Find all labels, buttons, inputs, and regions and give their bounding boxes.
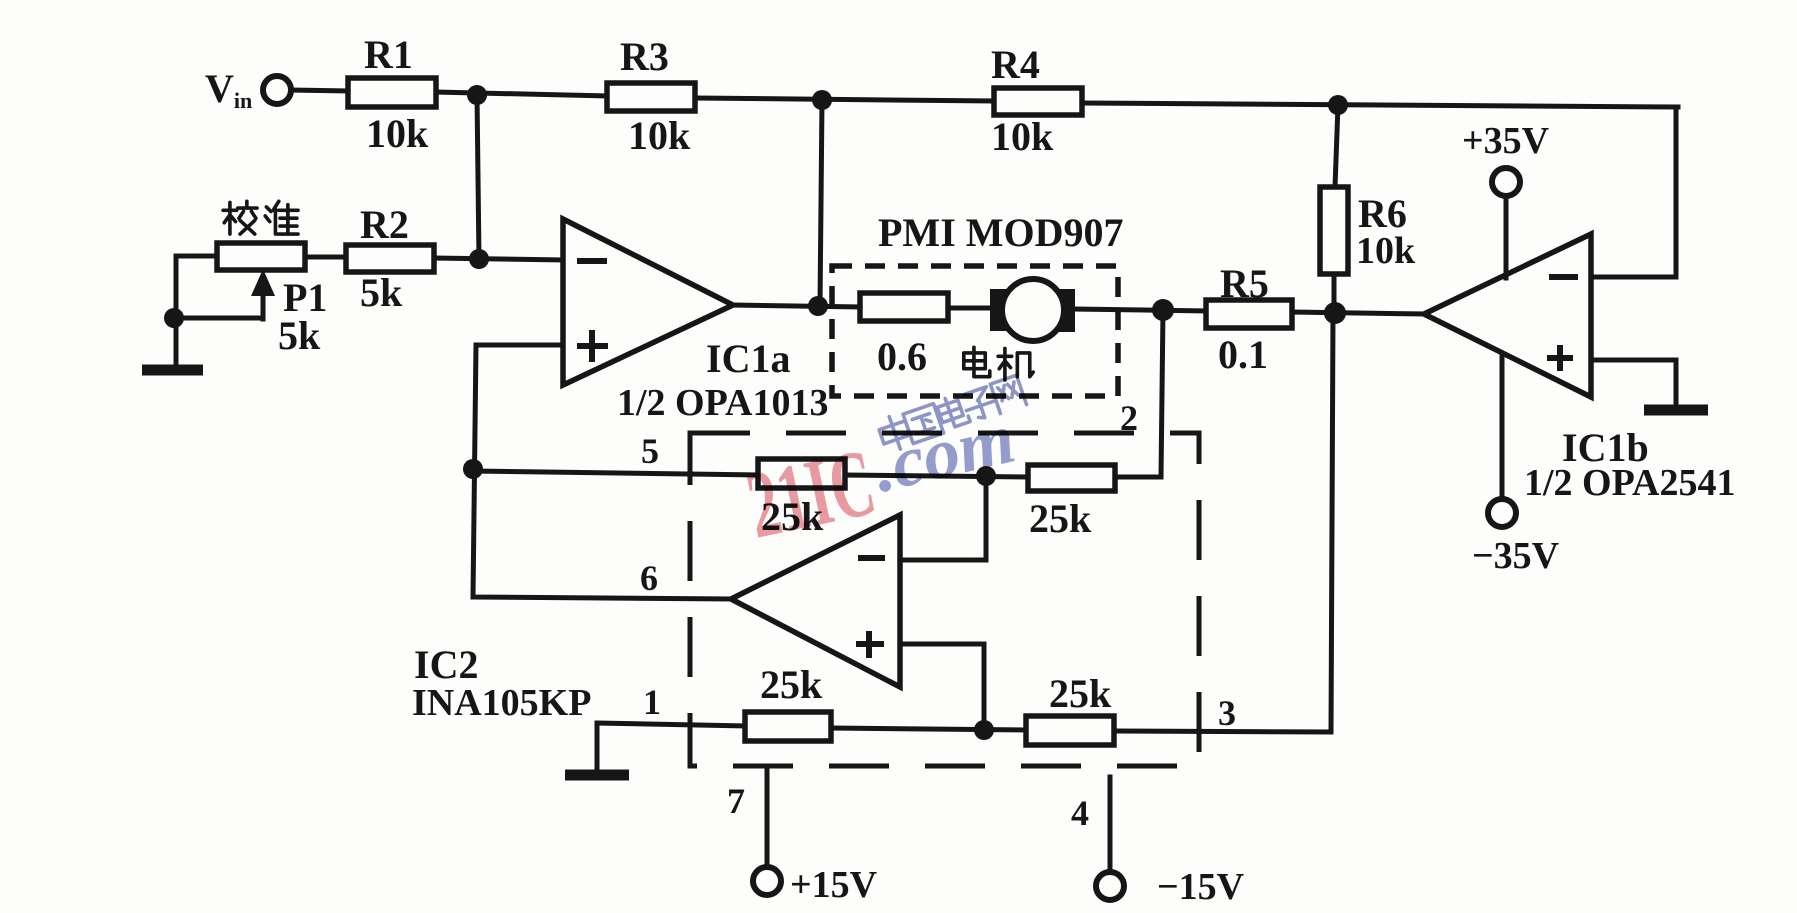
resistor 25k (top-right) (1028, 465, 1115, 541)
svg-text:5k: 5k (278, 313, 321, 358)
wire node G to IC2 inverting input (900, 476, 986, 560)
svg-text:IC1a: IC1a (706, 336, 790, 381)
svg-text:3: 3 (1218, 693, 1236, 733)
svg-text:1/2 OPA2541: 1/2 OPA2541 (1524, 462, 1735, 504)
wire node C to R6 (1335, 105, 1338, 187)
node G (IC2 inverting branch) (976, 466, 996, 486)
svg-text:7: 7 (727, 781, 745, 821)
svg-text:PMI MOD907: PMI MOD907 (878, 210, 1124, 255)
wire R5 to IC1b output (1292, 312, 1424, 314)
node E (motor output / pin2 branch) (1152, 299, 1174, 321)
svg-text:1/2 OPA1013: 1/2 OPA1013 (617, 382, 828, 424)
svg-text:10k: 10k (1356, 230, 1416, 272)
svg-text:−35V: −35V (1472, 535, 1560, 577)
node B (R3/R4/IC1a output branch) (812, 90, 832, 110)
supply +35V (1462, 120, 1550, 278)
wire pin 5 (473, 471, 758, 475)
op-amp IC2 internal (731, 515, 900, 687)
IC2 INA105KP dashed box (412, 433, 1199, 766)
resistor 25k (feedback, top-left) (758, 459, 845, 539)
wire node E down to pin 2 resistor (1115, 310, 1163, 477)
svg-text:4: 4 (1071, 793, 1089, 833)
ground P1 (142, 365, 203, 376)
wire R1 to R3 (436, 92, 607, 96)
motor 电机 (964, 279, 1075, 380)
svg-text:5: 5 (641, 431, 659, 471)
resistor 25k (bottom-right) (1026, 671, 1114, 745)
wire node B down to IC1a output node (820, 100, 822, 306)
resistor R3 (607, 34, 695, 158)
resistor R6 (1320, 187, 1416, 274)
svg-text:6: 6 (640, 558, 658, 598)
resistor 25k (bottom-left) (745, 662, 831, 741)
node H (noninverting/pin1 row) (974, 720, 994, 740)
svg-text:0.6: 0.6 (877, 334, 927, 379)
svg-text:25k: 25k (1029, 496, 1092, 541)
svg-text:10k: 10k (366, 111, 429, 156)
svg-text:Vin: Vin (205, 66, 252, 113)
node P1 wiper junction (164, 308, 184, 328)
svg-text:R2: R2 (360, 202, 409, 247)
wire motor to R5 (1075, 309, 1206, 311)
node F (R5/R6/IC1b out/pin3) (1324, 302, 1346, 324)
op-amp IC1a (563, 219, 828, 424)
resistor R4 (991, 42, 1082, 159)
node C (R4/R6/feedback) (1328, 95, 1348, 115)
resistor R2 (346, 202, 434, 315)
svg-text:0.1: 0.1 (1218, 332, 1268, 377)
wire top 25k to 25k (top-right) (845, 475, 1028, 477)
supply -35V (1472, 356, 1560, 577)
wire R2 to IC1a inverting input (434, 258, 563, 260)
wire feedback down to IC1b inverting input (1593, 107, 1676, 277)
svg-text:+15V: +15V (790, 864, 878, 906)
wire IC1a output (733, 305, 860, 307)
wire bottom 25k to 25k (831, 728, 1026, 730)
node R2/IC1a input junction (469, 249, 489, 269)
watermark 21IC.com 中国电子网 (738, 373, 1027, 559)
wire node A down to R2 output node (477, 95, 479, 259)
svg-text:1: 1 (643, 682, 661, 722)
svg-text:R5: R5 (1220, 261, 1269, 306)
svg-text:INA105KP: INA105KP (412, 682, 591, 724)
svg-text:R3: R3 (620, 34, 669, 79)
wire P1 to R2 (305, 255, 346, 260)
wire R6 to node F (1332, 274, 1337, 313)
svg-text:IC2: IC2 (414, 642, 478, 687)
wire R3 to R4 (695, 98, 994, 101)
ground IC1b (1644, 405, 1708, 416)
svg-text:−15V: −15V (1157, 866, 1245, 908)
node pin5 tee junction (463, 459, 483, 479)
label 校准 (calibration) (223, 201, 298, 234)
node A (R1/R3/R2 tap) (467, 85, 487, 105)
resistor R5 (1206, 261, 1292, 377)
terminal +15V (753, 864, 878, 906)
wire R4 to node C and top right corner (1082, 103, 1678, 107)
input terminal Vin (205, 66, 291, 113)
ground pin 1 (565, 723, 629, 775)
svg-text:25k: 25k (1049, 671, 1112, 716)
resistor 0.6 (860, 293, 948, 379)
svg-text:5k: 5k (360, 270, 403, 315)
wire P1 left lead down (176, 256, 217, 366)
pin 4 lead (1071, 777, 1110, 871)
svg-text:10k: 10k (991, 114, 1054, 159)
terminal -15V (1096, 866, 1245, 908)
wire IC1a noninverting input down to pin6 row (473, 345, 731, 599)
svg-text:R4: R4 (991, 42, 1040, 87)
op-amp IC1b (1424, 234, 1735, 504)
wire pin 1 (597, 723, 745, 726)
wire IC2 noninverting input down to pin1 row (900, 644, 984, 730)
wire node F down to pin 3 row (1331, 313, 1333, 732)
svg-text:25k: 25k (760, 662, 823, 707)
svg-text:R1: R1 (364, 32, 413, 77)
potentiometer P1 (217, 243, 327, 358)
svg-text:+35V: +35V (1462, 120, 1550, 162)
wire 0.6 to motor (948, 306, 992, 311)
node IC1a output junction (808, 296, 828, 316)
pin 7 lead (727, 766, 767, 867)
wire Vin to R1 (291, 90, 348, 91)
resistor R1 (348, 32, 436, 156)
wire P1 wiper to left leg (174, 316, 263, 321)
module box PMI MOD907 (832, 210, 1124, 396)
wire pin 3 (1114, 731, 1331, 732)
svg-text:10k: 10k (628, 113, 691, 158)
wire IC1b noninverting input to ground (1591, 360, 1676, 404)
